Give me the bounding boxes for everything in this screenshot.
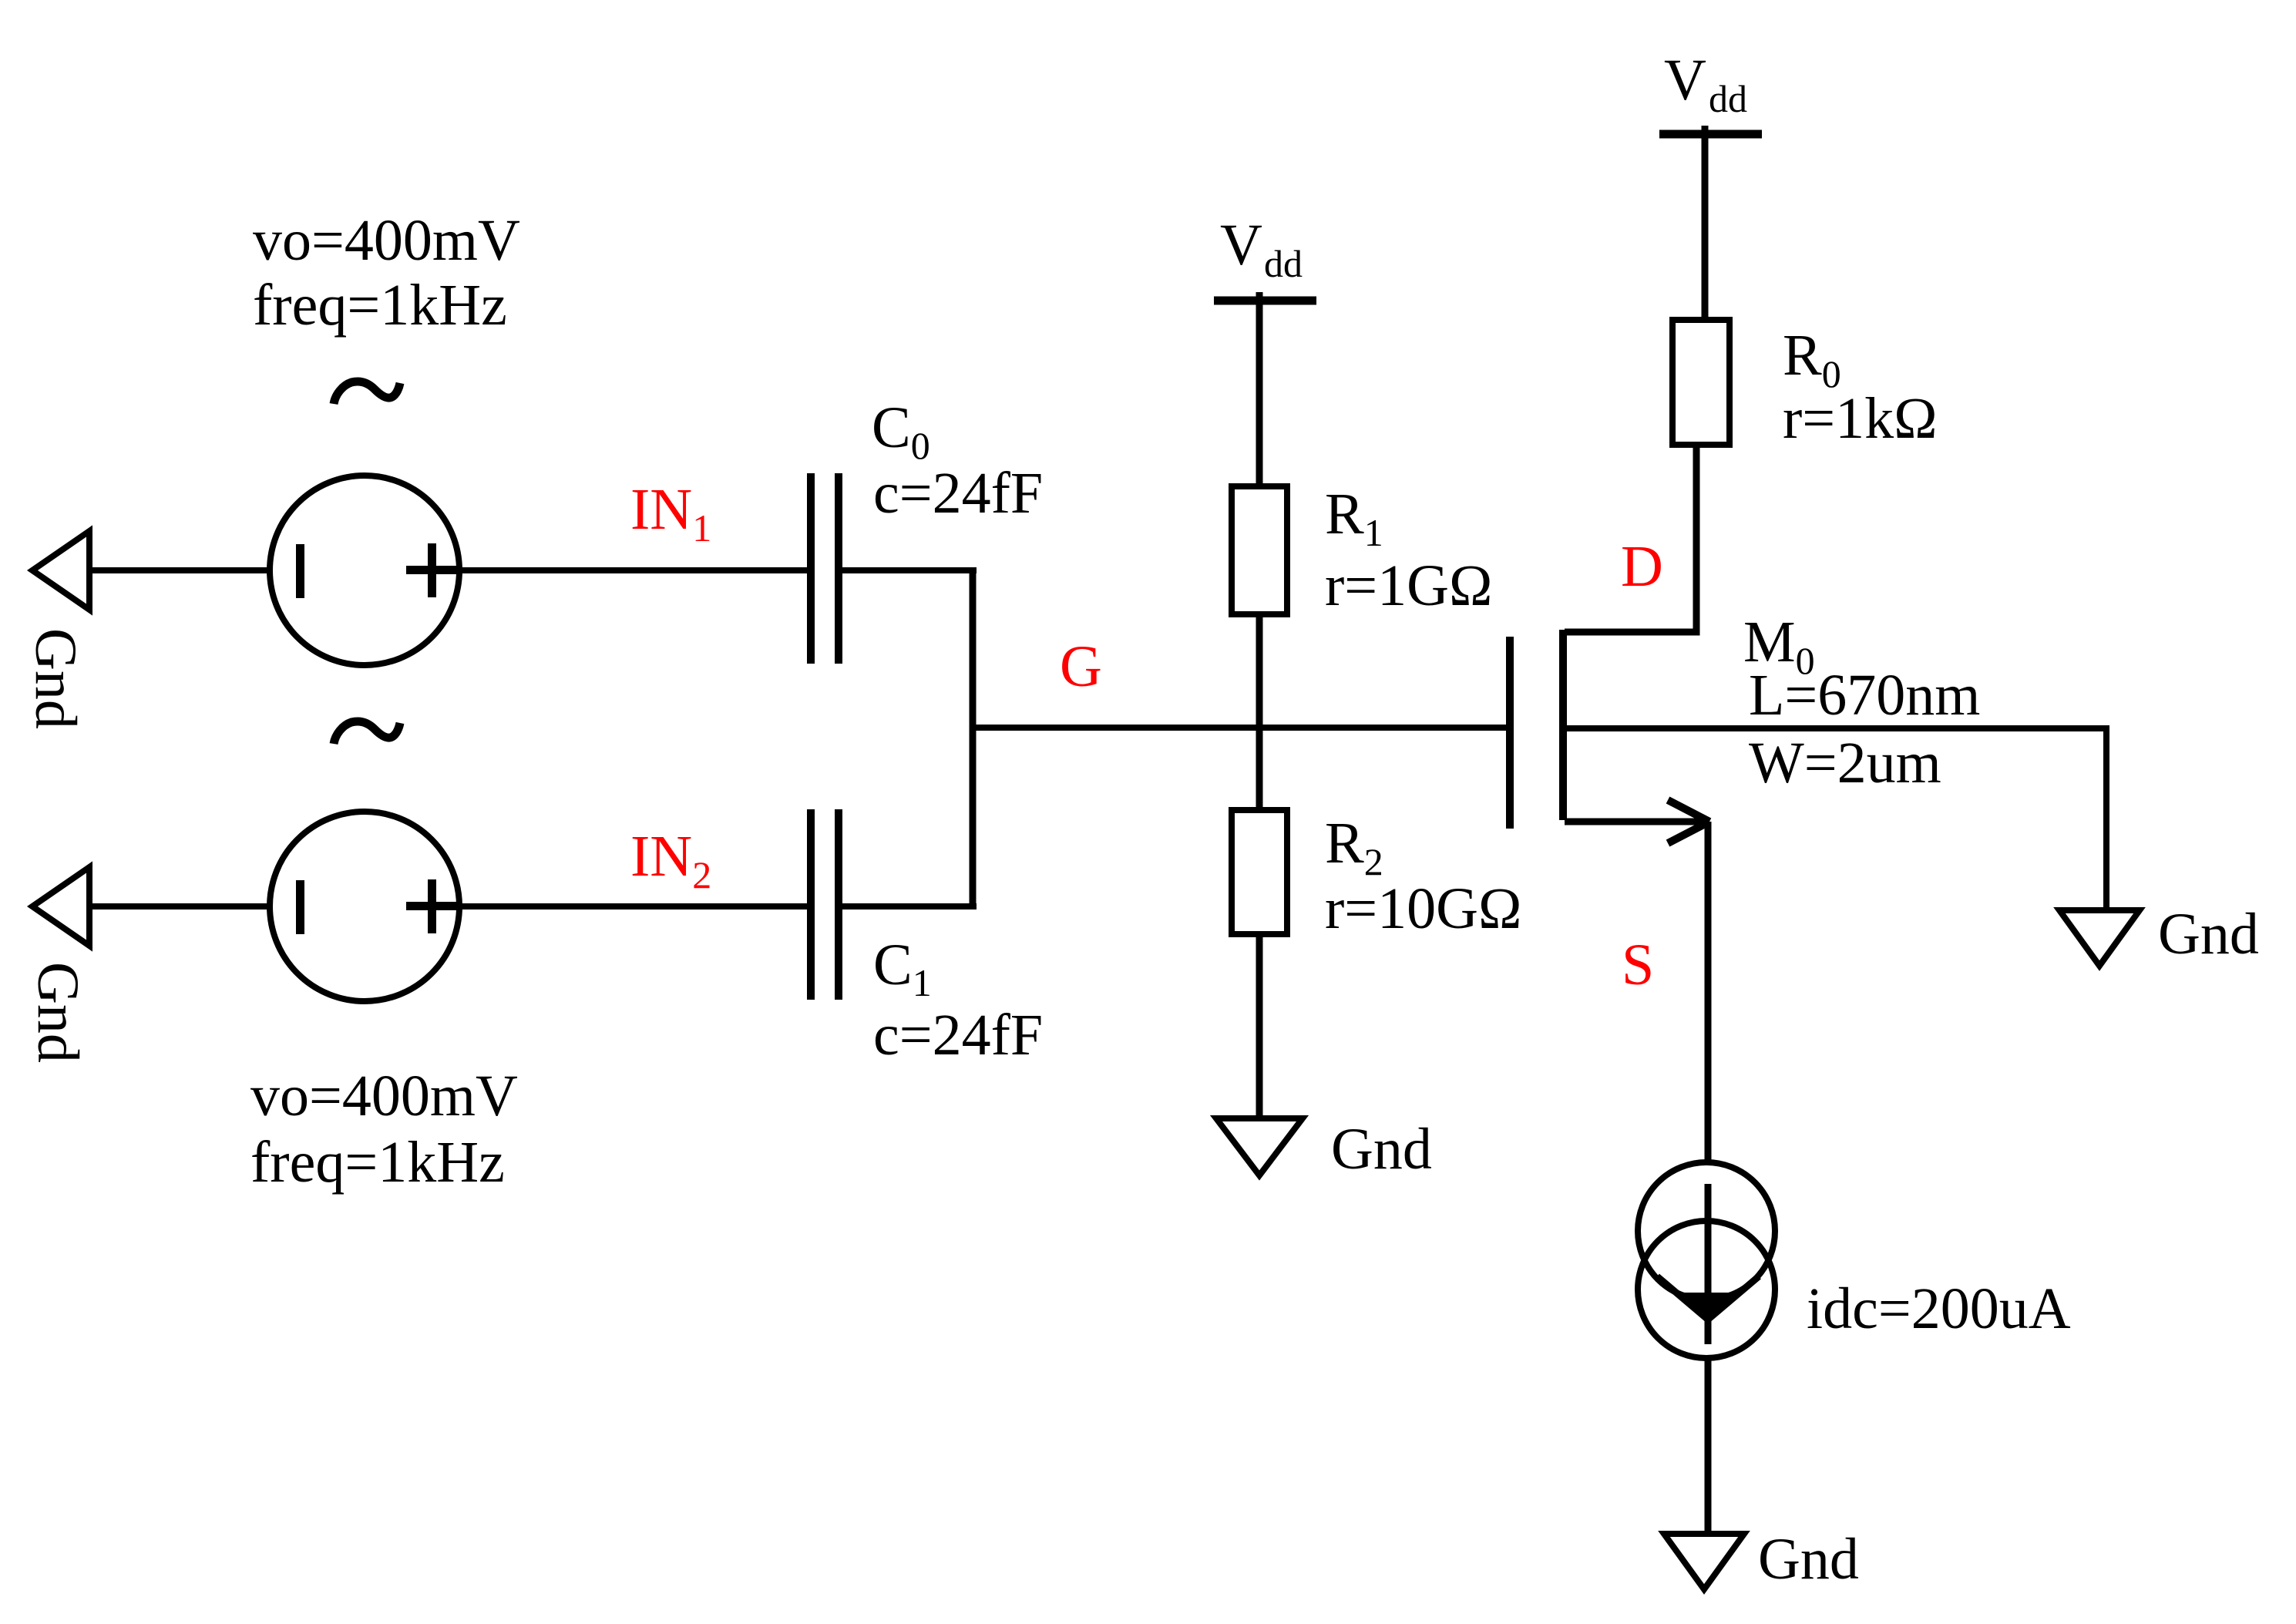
AC voltage source V2 (circle) xyxy=(270,812,459,1001)
ground symbol Gnd (right, bulk) xyxy=(2059,910,2140,966)
M0 source wire with arrow (node S) xyxy=(1565,819,1705,825)
svg-text:L=670nm: L=670nm xyxy=(1749,663,1980,728)
svg-text:S: S xyxy=(1622,933,1654,997)
resistor R0 xyxy=(1672,320,1730,445)
resistor R2 xyxy=(1232,810,1287,934)
wire net IN1 from V1 plus to C0 xyxy=(460,567,811,573)
svg-text:freq=1kHz: freq=1kHz xyxy=(250,1130,505,1195)
V1 minus bar xyxy=(296,544,304,598)
wire C0 right plate to junction xyxy=(842,567,977,573)
ground symbol Gnd (left of source V2) xyxy=(32,867,89,946)
V2 AC tilde mark xyxy=(334,721,400,744)
power symbol Vdd (left, above R1) xyxy=(1214,297,1316,305)
svg-text:Gnd: Gnd xyxy=(23,628,88,729)
wire from Gnd to V1 minus xyxy=(89,567,271,573)
svg-text:W=2um: W=2um xyxy=(1749,731,1941,795)
svg-text:Gnd: Gnd xyxy=(1331,1117,1432,1182)
svg-text:Gnd: Gnd xyxy=(2158,902,2259,967)
svg-text:Gnd: Gnd xyxy=(25,962,90,1063)
transistor M0 gate bar xyxy=(1506,637,1514,829)
power symbol Vdd (right, above R0) xyxy=(1659,130,1762,139)
svg-text:G: G xyxy=(1060,634,1102,699)
wire node G to MOSFET gate xyxy=(970,725,1509,731)
svg-text:V: V xyxy=(1220,213,1262,277)
svg-text:r=10GΩ: r=10GΩ xyxy=(1325,876,1522,941)
current source internal arrow xyxy=(1705,1184,1712,1344)
svg-text:r=1kΩ: r=1kΩ xyxy=(1783,386,1938,451)
wire R1 bottom through node G to R2 xyxy=(1256,614,1263,810)
wire S down to current source xyxy=(1705,822,1712,1164)
M0 drain wire (node D) xyxy=(1565,448,1696,632)
wire net IN2 from V2 plus to C1 xyxy=(460,903,811,910)
capacitor C1 plates xyxy=(807,809,815,1000)
wire R2 bottom to ground xyxy=(1256,934,1263,1121)
ground symbol Gnd (bottom, below I0) xyxy=(1664,1534,1744,1589)
ground symbol Gnd (below R2) xyxy=(1216,1118,1303,1175)
wire from Gnd to V2 minus xyxy=(89,903,271,910)
V1 plus sign xyxy=(428,543,436,597)
svg-text:vo=400mV: vo=400mV xyxy=(250,1064,518,1128)
M0 bulk wire to ground xyxy=(1567,728,2106,913)
V2 minus bar xyxy=(296,880,304,934)
wire current source to ground xyxy=(1705,1358,1712,1537)
svg-text:dd: dd xyxy=(1264,242,1303,285)
svg-text:Gnd: Gnd xyxy=(1758,1527,1859,1592)
svg-text:r=1GΩ: r=1GΩ xyxy=(1325,553,1493,618)
ground symbol Gnd (left of source V1) xyxy=(32,531,89,610)
svg-text:c=24fF: c=24fF xyxy=(873,461,1043,526)
svg-text:dd: dd xyxy=(1709,77,1747,120)
svg-text:vo=400mV: vo=400mV xyxy=(253,208,520,273)
wire vertical junction bus joining C0 and C1 xyxy=(970,567,977,910)
transistor M0 channel bar xyxy=(1559,630,1567,820)
capacitor C0 plates xyxy=(807,473,815,664)
svg-text:idc=200uA: idc=200uA xyxy=(1807,1276,2071,1341)
AC voltage source V1 (circle) xyxy=(270,476,459,665)
svg-text:D: D xyxy=(1621,534,1663,599)
V1 AC tilde mark xyxy=(334,382,400,404)
wire C1 right plate to junction xyxy=(842,903,977,910)
svg-text:freq=1kHz: freq=1kHz xyxy=(253,273,507,338)
svg-text:c=24fF: c=24fF xyxy=(873,1003,1043,1068)
current source I0 (two overlapping circles) xyxy=(1638,1162,1775,1300)
V2 plus sign xyxy=(428,879,436,933)
svg-text:V: V xyxy=(1664,48,1706,113)
resistor R1 xyxy=(1232,486,1287,614)
